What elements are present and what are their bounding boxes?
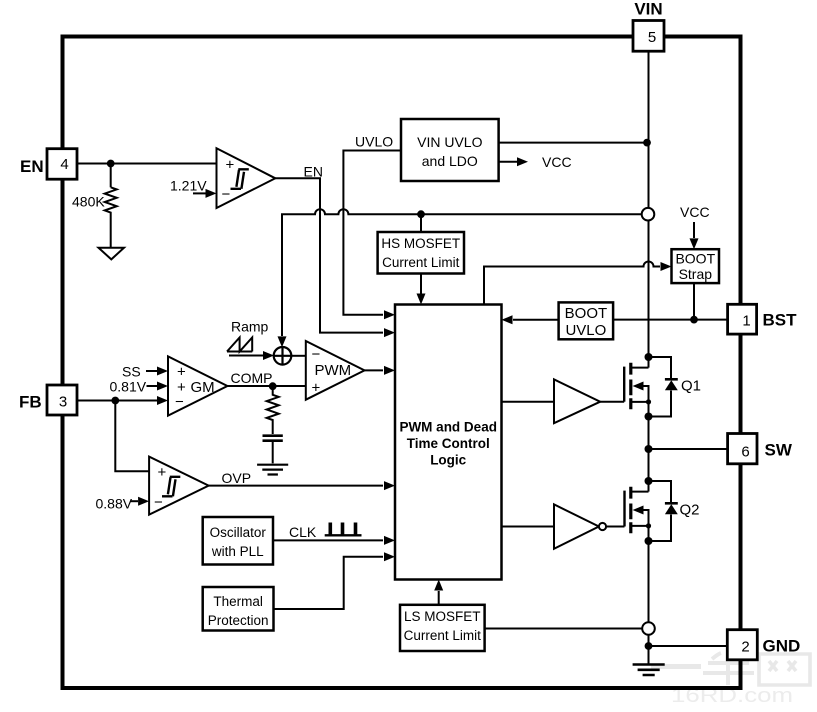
wire LS limit sense to source node: [485, 628, 642, 630]
node EN pin junction: [107, 160, 115, 168]
wire UVLO: [343, 151, 401, 315]
outer IC boundary: [63, 37, 741, 689]
svg-text:Ramp: Ramp: [231, 319, 269, 335]
wire CLK: [273, 539, 383, 541]
svg-text:2: 2: [741, 639, 749, 656]
svg-text:480K: 480K: [72, 194, 105, 210]
svg-text:Time Control: Time Control: [407, 436, 490, 451]
op-amp U2 (GM error amplifier): [168, 356, 227, 415]
open circle node above ground: [642, 622, 655, 635]
transistor Q2 (low-side NMOS): [625, 477, 700, 545]
block VIN UVLO and LDO: [401, 119, 499, 181]
svg-text:and LDO: and LDO: [422, 153, 478, 169]
block LS MOSFET current limit: [400, 605, 485, 651]
node FB junction: [111, 397, 119, 405]
svg-text:PWM: PWM: [315, 362, 352, 379]
wire FB to OVP: [115, 401, 149, 472]
watermark glyph 网: [759, 654, 810, 685]
svg-text:PWM and Dead: PWM and Dead: [399, 420, 497, 435]
svg-text:VCC: VCC: [542, 154, 572, 170]
wire BOOT UVLO to logic: [513, 319, 559, 321]
wire EN comparator output: [275, 178, 383, 332]
summing node: [274, 347, 292, 365]
wire HS limit to logic: [420, 274, 422, 294]
svg-text:Current Limit: Current Limit: [404, 628, 482, 643]
svg-text:BST: BST: [763, 311, 798, 330]
wire EN pin to comparator: [77, 163, 217, 165]
wire VIN rail: [648, 51, 650, 367]
ground (power ground symbol): [633, 665, 665, 676]
VCC output arrow: [499, 161, 517, 163]
buffer U5 (high-side driver): [554, 379, 600, 423]
svg-text:−: −: [175, 394, 184, 411]
svg-text:BOOT: BOOT: [675, 251, 715, 267]
comparator U4 (OVP schmitt): [149, 457, 209, 515]
svg-text:5: 5: [648, 29, 656, 46]
wire OVP to logic: [209, 485, 383, 487]
wire thermal to logic: [274, 557, 384, 609]
svg-text:VIN UVLO: VIN UVLO: [417, 134, 482, 150]
svg-text:HS MOSFET: HS MOSFET: [381, 236, 460, 251]
ramp sawtooth symbol: [227, 338, 252, 352]
node COMP junction: [269, 382, 277, 390]
svg-text:4: 4: [60, 156, 68, 173]
comparator U3 (PWM): [306, 341, 365, 400]
svg-text:Oscillator: Oscillator: [210, 525, 267, 540]
pin 5 VIN: [633, 0, 664, 51]
svg-text:SS: SS: [122, 364, 141, 380]
svg-text:FB: FB: [19, 393, 42, 412]
CLK pulse symbol: [325, 534, 362, 536]
wire COMP: [227, 385, 305, 387]
ground (comp network): [257, 465, 288, 475]
svg-text:+: +: [158, 464, 167, 481]
block Oscillator with PLL: [203, 517, 273, 565]
wire Q2 source to ground: [648, 541, 650, 622]
node ramp/HS junction: [417, 210, 425, 218]
open circle node on VIN rail: [642, 208, 655, 221]
pin 4 EN: [20, 149, 77, 180]
svg-text:−: −: [154, 494, 163, 511]
svg-text:+: +: [226, 157, 235, 174]
wire 480K branch: [110, 164, 112, 188]
pin 6 SW: [728, 434, 793, 464]
svg-text:Protection: Protection: [208, 613, 269, 628]
resistor R2 (comp network): [267, 386, 279, 434]
svg-text:+: +: [312, 380, 321, 397]
1.21V reference arrow: [193, 192, 206, 194]
svg-text:EN: EN: [20, 157, 44, 176]
svg-text:3: 3: [59, 393, 67, 410]
svg-text:VIN: VIN: [634, 0, 662, 19]
svg-text:Logic: Logic: [430, 453, 466, 468]
svg-text:COMP: COMP: [231, 370, 273, 386]
wire LDO to VIN rail: [499, 142, 649, 144]
svg-text:Current Limit: Current Limit: [382, 255, 460, 270]
wire BST rail: [613, 319, 728, 321]
svg-text:CLK: CLK: [289, 524, 317, 540]
ground (open triangle) below R1: [99, 248, 125, 260]
pin 2 GND: [727, 630, 800, 660]
block PWM and Dead Time Control Logic: [395, 305, 502, 580]
resistor R1 480K: [105, 187, 117, 247]
comparator U1 (EN schmitt): [217, 148, 276, 208]
wire boot strap to BST rail: [693, 283, 695, 320]
svg-text:EN: EN: [304, 164, 323, 180]
block Thermal Protection: [203, 587, 274, 631]
svg-text:+: +: [177, 364, 186, 381]
svg-text:SW: SW: [765, 441, 793, 460]
block HS MOSFET current limit: [378, 232, 464, 274]
transistor Q1 (high-side NMOS): [624, 353, 701, 421]
svg-text:Thermal: Thermal: [213, 594, 263, 609]
node GND junction: [645, 642, 653, 650]
wire PWM comparator to logic: [365, 369, 384, 371]
svg-text:Q2: Q2: [680, 502, 700, 519]
svg-text:LS MOSFET: LS MOSFET: [404, 609, 481, 624]
block BOOT Strap: [672, 249, 720, 283]
wire LS limit to logic (arrow up): [438, 591, 440, 605]
svg-text:−: −: [222, 186, 231, 203]
svg-text:6: 6: [741, 444, 749, 461]
svg-text:GM: GM: [191, 379, 215, 396]
svg-text:BOOT: BOOT: [565, 305, 608, 322]
svg-text:1: 1: [742, 313, 750, 330]
pin 1 BST: [728, 304, 798, 334]
svg-text:UVLO: UVLO: [355, 134, 393, 150]
svg-text:Strap: Strap: [679, 266, 713, 282]
svg-text:1.21V: 1.21V: [170, 178, 207, 194]
svg-text:0.81V: 0.81V: [110, 379, 147, 395]
node SW junction: [645, 445, 653, 453]
capacitor C1: [263, 436, 283, 441]
svg-text:Q1: Q1: [681, 378, 701, 395]
wire junction to HS MOSFET current limit: [420, 214, 422, 232]
wire ramp feed (from VIN rail, hops over EN and UVLO wires): [282, 209, 642, 336]
ramp arrow into summer: [229, 355, 263, 357]
svg-text:VCC: VCC: [680, 204, 710, 220]
svg-text:with PLL: with PLL: [211, 544, 264, 559]
wire SW rail: [648, 417, 650, 492]
wire summer to PWM comparator: [291, 355, 306, 357]
wire logic to BOOT strap (hops over VIN rail): [484, 262, 660, 305]
wire GND rail: [649, 645, 728, 647]
svg-text:UVLO: UVLO: [565, 322, 606, 339]
block BOOT UVLO: [559, 302, 614, 339]
wire FB pin to GM: [77, 400, 158, 402]
watermark glyph 一: [651, 664, 701, 669]
svg-text:GND: GND: [763, 637, 801, 656]
watermark glyph 牛: [703, 653, 754, 685]
svg-text:OVP: OVP: [222, 470, 252, 486]
inverter U6 (low-side driver): [554, 504, 599, 548]
svg-text:0.88V: 0.88V: [96, 496, 133, 512]
pin 3 FB: [19, 385, 77, 415]
svg-text:−: −: [312, 346, 321, 363]
